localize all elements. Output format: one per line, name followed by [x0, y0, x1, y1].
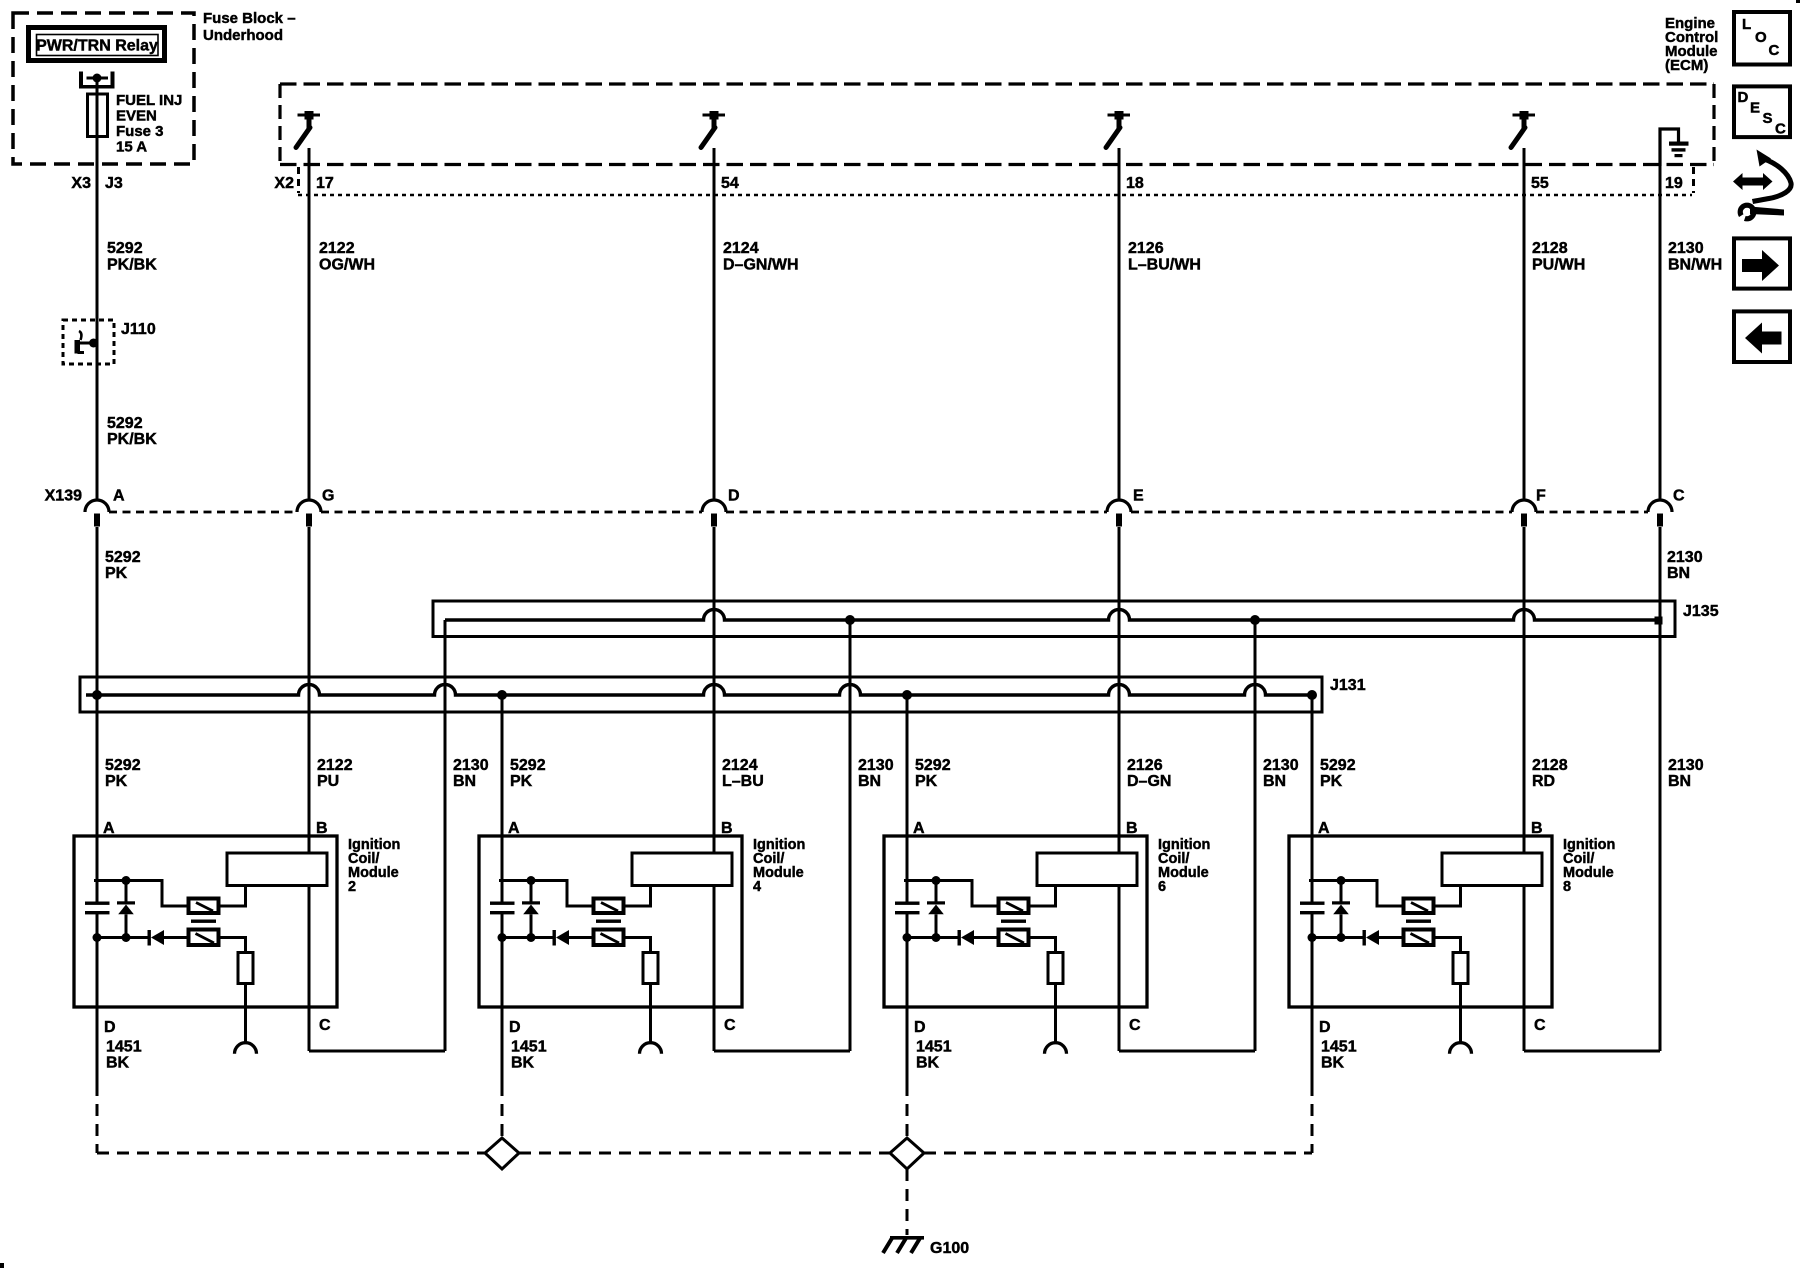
svg-text:D–GN/WH: D–GN/WH [723, 257, 799, 274]
svg-text:B: B [1531, 820, 1543, 837]
svg-text:C: C [319, 1017, 331, 1034]
svg-text:BN: BN [453, 773, 476, 790]
svg-text:2130: 2130 [1667, 549, 1703, 566]
svg-text:B: B [1126, 820, 1138, 837]
svg-text:54: 54 [721, 175, 739, 192]
svg-text:J131: J131 [1330, 677, 1366, 694]
svg-text:PWR/TRN Relay: PWR/TRN Relay [36, 38, 158, 55]
svg-text:17: 17 [316, 175, 334, 192]
svg-text:C: C [724, 1017, 736, 1034]
svg-text:Fuse Block –: Fuse Block – [203, 10, 296, 27]
svg-text:4: 4 [753, 879, 761, 895]
svg-text:J135: J135 [1683, 603, 1719, 620]
svg-text:2130: 2130 [453, 757, 489, 774]
svg-text:S: S [1763, 110, 1773, 127]
svg-text:2130: 2130 [1668, 757, 1704, 774]
svg-text:1451: 1451 [511, 1039, 547, 1056]
svg-text:C: C [1673, 488, 1685, 505]
svg-text:G: G [322, 488, 334, 505]
svg-text:BN/WH: BN/WH [1668, 257, 1722, 274]
svg-text:BN: BN [1667, 565, 1690, 582]
svg-text:F: F [1536, 488, 1546, 505]
svg-text:A: A [1318, 820, 1330, 837]
svg-text:L–BU: L–BU [722, 773, 764, 790]
svg-text:5292: 5292 [107, 240, 143, 257]
svg-text:2122: 2122 [317, 757, 353, 774]
svg-text:OG/WH: OG/WH [319, 257, 375, 274]
svg-text:2128: 2128 [1532, 240, 1568, 257]
svg-text:J3: J3 [105, 175, 123, 192]
svg-text:BK: BK [1321, 1055, 1345, 1072]
svg-text:D: D [914, 1019, 926, 1036]
svg-text:BN: BN [1263, 773, 1286, 790]
svg-text:PK: PK [1320, 773, 1343, 790]
svg-text:D: D [1738, 89, 1749, 106]
svg-text:D: D [509, 1019, 521, 1036]
svg-text:PK/BK: PK/BK [107, 257, 157, 274]
svg-text:2130: 2130 [1668, 240, 1704, 257]
svg-text:X3: X3 [71, 175, 91, 192]
svg-text:PK/BK: PK/BK [107, 431, 157, 448]
svg-text:5292: 5292 [510, 757, 546, 774]
svg-text:D: D [104, 1019, 116, 1036]
svg-text:1451: 1451 [1321, 1039, 1357, 1056]
svg-text:C: C [1769, 42, 1780, 59]
svg-text:C: C [1129, 1017, 1141, 1034]
svg-text:2124: 2124 [723, 240, 759, 257]
svg-text:A: A [113, 488, 125, 505]
svg-text:PU: PU [317, 773, 339, 790]
svg-text:5292: 5292 [915, 757, 951, 774]
svg-text:BK: BK [106, 1055, 130, 1072]
svg-text:PK: PK [105, 773, 128, 790]
svg-text:55: 55 [1531, 175, 1549, 192]
svg-text:E: E [1133, 488, 1144, 505]
svg-text:C: C [1775, 121, 1786, 138]
svg-text:1451: 1451 [106, 1039, 142, 1056]
svg-text:BK: BK [511, 1055, 535, 1072]
svg-text:5292: 5292 [105, 757, 141, 774]
svg-text:2126: 2126 [1127, 757, 1163, 774]
svg-text:2126: 2126 [1128, 240, 1164, 257]
svg-text:15 A: 15 A [116, 139, 147, 156]
svg-text:PK: PK [105, 565, 128, 582]
svg-text:8: 8 [1563, 879, 1571, 895]
svg-text:PK: PK [915, 773, 938, 790]
svg-text:19: 19 [1665, 175, 1683, 192]
svg-text:BK: BK [916, 1055, 940, 1072]
svg-text:FUEL INJ: FUEL INJ [116, 92, 182, 109]
svg-text:A: A [913, 820, 925, 837]
svg-text:PU/WH: PU/WH [1532, 257, 1585, 274]
svg-text:2: 2 [348, 879, 356, 895]
svg-text:O: O [1755, 29, 1767, 46]
svg-text:X2: X2 [274, 175, 294, 192]
svg-text:5292: 5292 [1320, 757, 1356, 774]
svg-text:2122: 2122 [319, 240, 355, 257]
svg-text:2124: 2124 [722, 757, 758, 774]
svg-text:B: B [721, 820, 733, 837]
svg-text:2130: 2130 [858, 757, 894, 774]
svg-text:C: C [1534, 1017, 1546, 1034]
svg-text:BN: BN [1668, 773, 1691, 790]
svg-text:A: A [103, 820, 115, 837]
svg-text:B: B [316, 820, 328, 837]
svg-text:2130: 2130 [1263, 757, 1299, 774]
svg-text:L: L [1742, 16, 1751, 33]
svg-text:(ECM): (ECM) [1665, 57, 1708, 74]
svg-text:6: 6 [1158, 879, 1166, 895]
svg-text:L–BU/WH: L–BU/WH [1128, 257, 1201, 274]
svg-text:E: E [1750, 100, 1760, 117]
svg-text:RD: RD [1532, 773, 1555, 790]
svg-text:X139: X139 [45, 488, 82, 505]
svg-text:EVEN: EVEN [116, 108, 157, 125]
svg-text:D: D [728, 488, 740, 505]
svg-text:PK: PK [510, 773, 533, 790]
svg-text:BN: BN [858, 773, 881, 790]
svg-text:A: A [508, 820, 520, 837]
svg-text:2128: 2128 [1532, 757, 1568, 774]
svg-text:5292: 5292 [105, 549, 141, 566]
svg-text:5292: 5292 [107, 415, 143, 432]
svg-text:18: 18 [1126, 175, 1144, 192]
svg-text:D–GN: D–GN [1127, 773, 1171, 790]
svg-text:1451: 1451 [916, 1039, 952, 1056]
svg-text:J110: J110 [121, 321, 156, 338]
svg-text:Underhood: Underhood [203, 27, 283, 44]
svg-text:Fuse 3: Fuse 3 [116, 123, 164, 140]
svg-text:D: D [1319, 1019, 1331, 1036]
svg-text:G100: G100 [930, 1240, 969, 1257]
